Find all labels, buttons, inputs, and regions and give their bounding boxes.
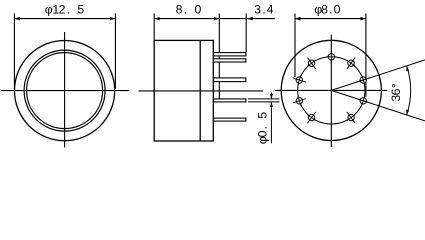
svg-text:8: 8 [321,2,328,16]
svg-text:3: 3 [254,2,261,16]
arrow left φ12.5 [14,17,20,21]
label 3.4 [254,2,274,16]
pin at -72° [291,73,307,87]
vertical centerline left view [64,32,66,148]
extension of pin4 bottom edge [248,101,280,103]
extension line right φ8.0 [365,14,367,98]
pin at -108° [291,94,307,108]
outer circle rear view [281,40,381,140]
pin at -144° [303,109,319,126]
pin row 3 [214,78,246,82]
φ0.5 upper leader [270,93,272,99]
36° upper ray [331,60,425,91]
extension line right of 3.4 (pin tips) [245,14,247,53]
dimension line φ12.5 [14,18,115,20]
extension line left of φ12.5 [13,14,15,90]
arrow right 8.0 [214,17,220,21]
svg-text:.: . [255,126,269,129]
crimp line on body [199,40,201,141]
label 36° rotated [389,83,403,101]
φ0.5 lower leader [270,102,272,143]
body rectangle [154,40,213,141]
pin at -36° [303,55,319,72]
horizontal centerline middle view [139,90,264,92]
svg-text:5: 5 [77,2,84,16]
inner circle A (rim outer) [24,50,105,131]
horizontal centerline left view [1,90,129,92]
extension line left φ8.0 [294,14,296,78]
pin at +108° [355,94,371,108]
φ0.5 down arrow [270,94,273,99]
arrow outside right 3.4 [247,17,253,21]
label φ12.5 [45,2,85,16]
inner circle B (rim inner) [27,53,103,129]
base plate / extension line at rear face [218,14,220,99]
pin at +144° [343,109,359,126]
extension of pin4 top edge [248,98,280,100]
svg-text:8: 8 [176,2,183,16]
label φ0.5 rotated [255,112,269,145]
label 8.0 [176,2,202,16]
horizontal centerline right view [275,89,387,91]
svg-text:°: ° [389,83,403,88]
pin row 5 [214,118,246,121]
svg-text:.: . [67,2,70,16]
outer circle (can body) [15,41,115,141]
pin at +72° [355,73,371,87]
dimension line 8.0 [154,18,219,20]
pin bolt circle φ8 [298,57,365,124]
svg-text:.: . [262,2,265,16]
pin row 4 [214,99,246,102]
svg-text:.: . [329,2,332,16]
φ0.5 up arrow [270,102,273,107]
svg-text:6: 6 [389,88,403,95]
arrow left 8.0 [154,17,160,21]
arrow right φ12.5 [110,17,116,21]
extension line right of φ12.5 [114,14,116,90]
36° arc [407,66,411,115]
pin row 2 [214,59,246,62]
vertical centerline right view [330,35,332,147]
svg-text:0: 0 [194,2,201,16]
arrow left φ8.0 [295,17,301,21]
36° arc upper arrow [406,66,409,71]
pin at 0° [326,50,336,64]
svg-text:0: 0 [334,2,341,16]
svg-text:5: 5 [255,112,269,119]
dimension line 3.4 extended [219,18,274,20]
dimension line φ8.0 [295,18,366,20]
svg-text:.: . [184,2,187,16]
label φ8.0 [314,2,340,16]
svg-text:0: 0 [255,130,269,137]
extension line above body left [153,14,155,41]
arrow right φ8.0 [360,17,366,21]
pin row 1 [214,53,246,56]
svg-text:2: 2 [59,2,66,16]
svg-text:4: 4 [267,2,274,16]
36° arc lower arrow [406,110,409,115]
36° lower ray [331,90,425,121]
pin at +36° [343,55,359,72]
